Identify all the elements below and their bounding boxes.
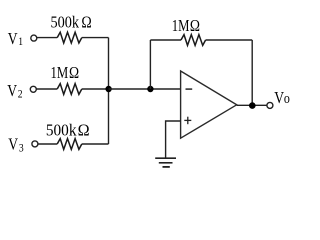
svg-text:1M: 1M [51,64,69,82]
wire V3 terminal to R3 [38,143,57,145]
resistor R1 500k [57,32,82,43]
label V3 [8,135,24,155]
value label 1MOhm (R2) [51,64,80,83]
wire feedback top right segment [206,39,253,41]
resistor Rf 1M [181,35,206,46]
svg-text:3: 3 [19,141,24,154]
resistor R3 500k [57,139,82,150]
svg-text:Ω: Ω [81,13,91,32]
label V2 [7,82,22,101]
input terminal V3 [32,141,38,147]
ground [155,158,176,167]
label Vo [274,89,290,108]
junction summing node [105,86,111,92]
svg-text:500k: 500k [46,122,77,140]
value label 500kOhm (R1) [51,13,92,32]
op-amp plus sign [184,117,191,125]
input terminal V1 [31,35,37,41]
output terminal Vo [267,102,273,108]
wire feedback vertical up [149,40,151,89]
svg-text:V: V [8,30,18,49]
label V1 [8,30,23,49]
wire V2 terminal to R2 [36,88,57,90]
value label 500kOhm (R3) [46,120,90,140]
wire feedback top left segment [150,39,181,41]
svg-text:Ω: Ω [190,17,200,36]
svg-text:o: o [284,90,290,107]
value label 1MOhm (Rf) [172,17,200,36]
wire R3 to bus [82,143,109,145]
resistor R2 1M [57,84,82,95]
wire R2 to summing node [82,88,109,90]
svg-text:1M: 1M [172,18,190,36]
svg-text:Ω: Ω [69,64,79,83]
wire V1 terminal to R1 [37,37,58,39]
svg-text:Ω: Ω [78,120,90,139]
wire feedback vertical down to output [251,40,253,105]
wire noninverting input to ground [166,121,181,158]
svg-text:V: V [7,82,17,101]
op-amp U1 triangle [181,71,237,138]
svg-text:V: V [8,135,18,154]
wire R1 to bus [82,37,109,39]
wire vertical bus V1-V3 [108,38,110,144]
junction output node [249,102,256,109]
svg-text:1: 1 [18,35,23,48]
svg-text:500k: 500k [51,13,80,31]
input terminal V2 [30,86,36,92]
junction feedback tap [147,86,153,92]
op-amp minus sign [186,88,193,90]
svg-text:2: 2 [18,87,23,100]
svg-text:V: V [274,89,284,108]
wire op-amp output [237,104,267,106]
wire summing node to op-amp inverting input [109,88,181,90]
